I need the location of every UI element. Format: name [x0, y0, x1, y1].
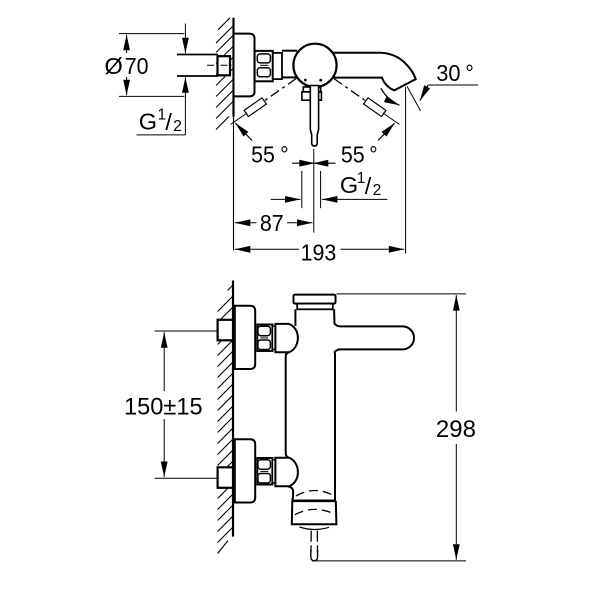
hex union nut top view: [255, 51, 273, 81]
outlet block: [292, 501, 337, 525]
lever hinge collars: [303, 87, 320, 92]
centerline of inlet: [207, 64, 233, 66]
supply pipe behind wall: [177, 54, 218, 56]
298 extension lines: [337, 293, 467, 295]
G1/2 nipple behind wall: [218, 56, 231, 75]
193 dimension: [235, 248, 299, 250]
55 center arrows converging: [292, 162, 315, 164]
body top cap: [294, 295, 336, 304]
spout tip extension line: [405, 87, 407, 253]
G 1/2 second: extension lines: [301, 171, 303, 208]
30 deg reference line: [428, 84, 478, 86]
lower hex nut: [257, 458, 272, 485]
dia 70 dimension line with arrows: [126, 35, 128, 53]
upper hex nut: [257, 325, 272, 352]
svg-text:193: 193: [301, 240, 337, 266]
svg-text:Ø: Ø: [105, 53, 123, 79]
30 deg slant line: [407, 86, 421, 111]
wall face line top view: [232, 18, 234, 117]
svg-text:°: °: [465, 60, 474, 86]
150 extension lines: [155, 330, 220, 332]
handle lever bottom view: [335, 324, 414, 352]
55 right outer arrow: [378, 123, 395, 141]
svg-text:87: 87: [260, 210, 284, 236]
150 label: [124, 393, 203, 420]
30 deg leader arrow: [420, 85, 428, 101]
body cap ring: [297, 304, 333, 310]
upper escutcheon: [235, 306, 255, 369]
spout top view: [331, 53, 416, 91]
55 deg label left: [251, 142, 275, 168]
55 right phantom lever: [334, 79, 383, 114]
vertical centerline below lever: [313, 149, 315, 233]
svg-text:55: 55: [341, 142, 365, 168]
dia 70 extension lines: [119, 33, 184, 35]
svg-text:°: °: [369, 142, 378, 168]
298 label: [436, 416, 476, 443]
wall face line bottom view: [232, 281, 234, 537]
svg-text:2: 2: [173, 118, 182, 135]
lever swing phantom left (55): [247, 79, 296, 114]
55 left outer arrow: [235, 123, 252, 141]
lever rod pointing down (center position): [310, 86, 318, 147]
wall hatching bottom view: [218, 285, 233, 554]
svg-text:/: /: [165, 109, 172, 135]
lower escutcheon: [235, 439, 255, 502]
55 deg label right: [341, 142, 365, 168]
body cylinder top view: [282, 50, 297, 52]
lower S-union dome: [275, 458, 298, 487]
svg-text:G: G: [340, 172, 358, 198]
upper collar: [272, 326, 275, 349]
upper S-union dome: [275, 324, 298, 352]
svg-text:150±15: 150±15: [124, 393, 203, 420]
svg-text:G: G: [139, 108, 157, 134]
wall hatching top view: [216, 18, 234, 130]
G 1/2 second arrows: [271, 198, 301, 200]
upper wall nipple: [218, 320, 233, 341]
hidden spout arcs (dashed): [296, 490, 333, 496]
svg-text:/: /: [365, 173, 372, 199]
water drip stream dashed: [310, 531, 312, 552]
G 1/2 leader first: [184, 24, 186, 54]
svg-text:°: °: [280, 142, 289, 168]
handle ball top view: [293, 44, 336, 87]
svg-text:70: 70: [125, 53, 149, 79]
298 dimension line: [455, 295, 457, 411]
body tube right edge: [333, 309, 335, 324]
svg-text:55: 55: [251, 142, 275, 168]
30 deg swing arc arrow: [381, 88, 400, 105]
svg-text:2: 2: [373, 182, 382, 199]
svg-text:30: 30: [436, 59, 460, 86]
collar top view: [273, 53, 282, 79]
pivot dots on ball: [304, 79, 307, 82]
30 deg label: [436, 59, 460, 86]
87 dimension: [235, 222, 257, 224]
water drop: [311, 550, 318, 561]
lower wall nipple: [218, 467, 233, 488]
150 dimension line: [163, 332, 165, 391]
lower collar: [272, 460, 275, 483]
svg-text:298: 298: [436, 416, 476, 443]
escutcheon top view: [234, 34, 255, 97]
body tube left edge: [294, 309, 296, 326]
